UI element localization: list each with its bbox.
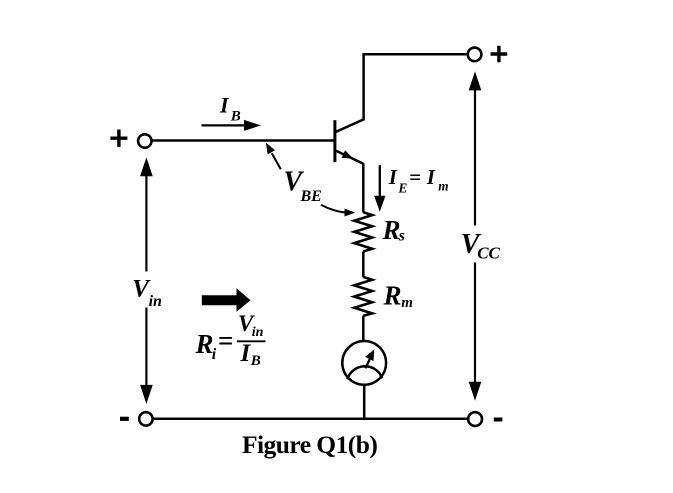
arrow IB current arrow xyxy=(202,120,262,131)
svg-text:B: B xyxy=(230,108,241,124)
svg-text:in: in xyxy=(149,293,162,310)
wire meter to bottom rail xyxy=(363,385,366,419)
svg-text:I: I xyxy=(219,93,230,118)
svg-text:I: I xyxy=(240,340,252,367)
transistor Q1 base bar xyxy=(333,120,336,162)
wire fraction bar of Ri formula xyxy=(237,340,266,342)
svg-text:BE: BE xyxy=(300,188,322,205)
arrow Vin measurement double arrow xyxy=(140,157,153,404)
svg-text:Figure Q1(b): Figure Q1(b) xyxy=(242,430,377,459)
svg-text:R: R xyxy=(195,329,214,359)
meter M1 needle with arrowhead xyxy=(365,349,374,368)
label Rm xyxy=(383,280,413,311)
arrow bold input-resistance arrow xyxy=(202,288,251,312)
label IE = Im xyxy=(388,165,449,195)
svg-text:E: E xyxy=(397,180,407,195)
node plus sign (top-right terminal polarity) xyxy=(491,46,508,63)
node output terminal bottom-right (open circle) xyxy=(468,412,482,426)
node output terminal top-right (open circle) xyxy=(468,48,482,62)
wire base wire from input terminal to transistor base xyxy=(152,139,335,142)
svg-text:R: R xyxy=(383,280,402,310)
svg-text:=: = xyxy=(409,165,421,189)
label IB xyxy=(219,93,241,125)
label VCC xyxy=(461,229,501,263)
node input terminal bottom-left (open circle) xyxy=(139,412,152,425)
arrow IE current arrow xyxy=(374,165,385,211)
meter M1 (galvanometer circle) xyxy=(342,341,386,385)
label VBE xyxy=(284,166,322,205)
wire between Rs and Rm xyxy=(362,252,365,278)
svg-text:CC: CC xyxy=(477,244,500,263)
svg-text:m: m xyxy=(438,178,448,193)
node minus sign (bottom-left terminal polarity) xyxy=(120,417,129,421)
resistor Rs xyxy=(354,212,372,251)
arrow Vcc measurement double arrow xyxy=(469,71,482,400)
wire emitter vertical down to Rs xyxy=(362,163,365,212)
svg-text:=: = xyxy=(218,326,233,356)
label Vin xyxy=(132,276,162,310)
svg-text:I: I xyxy=(388,165,398,189)
node input terminal top-left (open circle) xyxy=(138,134,151,147)
wire bottom rail xyxy=(153,418,468,421)
arrow VBE leader to base wire xyxy=(266,143,281,170)
svg-text:R: R xyxy=(382,215,401,245)
svg-text:i: i xyxy=(212,346,217,363)
resistor Rm xyxy=(354,277,372,316)
svg-text:in: in xyxy=(252,325,264,340)
node plus sign (top-left + terminal polarity) xyxy=(110,130,127,147)
wire between Rm and meter xyxy=(362,316,365,341)
label Rs xyxy=(382,215,406,245)
svg-text:B: B xyxy=(250,353,261,369)
arrow VBE leader to emitter xyxy=(321,205,355,217)
meter M1 scale arc xyxy=(347,366,382,379)
label Ri = Vin/IB formula xyxy=(195,311,264,369)
svg-text:m: m xyxy=(401,295,413,311)
svg-text:s: s xyxy=(398,228,405,245)
transistor Q1 emitter lead with arrow xyxy=(336,150,363,164)
transistor Q1 collector lead and top wire to Vcc terminal xyxy=(336,54,467,132)
svg-text:I: I xyxy=(426,165,436,189)
node minus sign (bottom-right terminal polarity) xyxy=(494,418,503,422)
